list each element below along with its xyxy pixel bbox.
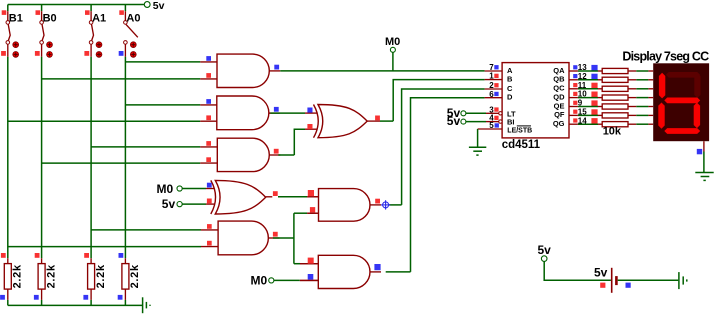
resistor 10k (QE segment): [602, 104, 628, 109]
display segment a (off): [666, 72, 700, 78]
cd4511 pin 14 (QG): [553, 116, 598, 128]
wire node P2a to U5 input 2: [294, 207, 319, 213]
wire resistor to display segment QA: [628, 70, 653, 72]
AND gate U8: [300, 255, 381, 288]
resistor 10k (QA segment): [602, 68, 628, 73]
wire pulldown rail: [8, 304, 143, 306]
svg-text:B1: B1: [9, 13, 23, 25]
wire QE to resistor: [578, 106, 602, 108]
IC U9 cd4511 body: [502, 63, 569, 138]
display panel: [653, 63, 709, 141]
terminal M0 (at U7): [157, 182, 183, 196]
cd4511 pin 7 (A): [485, 63, 513, 75]
display segment g (on): [664, 98, 700, 104]
wire U1 output to cd4511 pin A (node P0): [280, 70, 484, 72]
wire display common to ground: [697, 141, 704, 172]
wire U7 output to U5 input 1: [278, 190, 319, 197]
wire resistor to display segment QE: [628, 106, 653, 108]
wire A1 to U3 input A: [91, 146, 200, 148]
ground (battery): [679, 272, 687, 289]
svg-text:5v: 5v: [447, 114, 461, 128]
cd4511 pin 4 (BI) with 5v terminal: [447, 114, 515, 129]
svg-text:B0: B0: [43, 13, 57, 25]
wire M0 to U8 input 2: [274, 274, 318, 280]
svg-text:QE: QE: [554, 101, 565, 110]
wire QG to resistor: [578, 123, 602, 125]
battery BT1 5v: [594, 265, 631, 293]
svg-text:5v: 5v: [538, 243, 552, 257]
AND gate U3 (A1.B0): [200, 138, 280, 171]
AND gate U6 (A1.B1): [201, 221, 279, 255]
resistor 10k (QF segment): [602, 113, 628, 118]
wire 5v top rail: [8, 4, 145, 6]
cd4511 pin 10 (QD): [553, 90, 597, 102]
switch A1 (SPDT to 5v): [84, 5, 106, 58]
AND gate U1 (A0.B0): [200, 54, 280, 87]
wire B0 to U1 input B: [42, 78, 201, 80]
display segment c (on): [694, 103, 700, 129]
svg-text:QA: QA: [553, 66, 565, 75]
wire QA to resistor: [578, 70, 602, 72]
resistor R4 2.2k: [118, 253, 142, 305]
svg-text:A1: A1: [92, 13, 106, 25]
wire QC to resistor: [578, 88, 602, 90]
wire A1 column: [90, 57, 92, 258]
ground (display): [695, 173, 713, 181]
svg-text:2.2k: 2.2k: [45, 264, 57, 288]
svg-text:QB: QB: [553, 75, 565, 84]
svg-text:QG: QG: [553, 119, 565, 128]
resistor 10k (QD segment): [602, 95, 628, 100]
wire resistor to display segment QB: [628, 79, 653, 81]
resistor R3 2.2k: [83, 253, 107, 305]
svg-text:M0: M0: [157, 182, 174, 196]
svg-text:QC: QC: [553, 84, 565, 93]
terminal M0 (bottom): [251, 273, 274, 287]
ground (below cd4511): [469, 147, 486, 155]
svg-text:5v: 5v: [594, 265, 608, 279]
wire B1 to U5 input B: [8, 246, 201, 248]
svg-text:BI: BI: [507, 118, 515, 127]
wire U4 output to cd4511 pin B: [380, 80, 485, 122]
wire M0 to node P0: [392, 52, 394, 71]
switch A0 (SPDT to 5v): [119, 5, 141, 58]
wire U8 output to cd4511 pin D: [374, 98, 484, 272]
wire A1 to U5 input A: [91, 229, 201, 231]
svg-text:2.2k: 2.2k: [12, 264, 24, 288]
wire node P2a to U8 input 1: [294, 258, 318, 264]
wire resistor to display segment QF: [628, 114, 653, 116]
resistor R1 2.2k: [0, 253, 24, 305]
wire U5 output to cd4511 pin C: [389, 89, 485, 205]
ground (pulldown rail): [143, 297, 150, 313]
wire A0 column: [124, 57, 126, 258]
cd4511 pin 12 (QB): [553, 72, 597, 84]
power terminal 5v (top): [144, 0, 164, 12]
wire resistor to display segment QG: [628, 123, 653, 125]
XOR gate U4 (P1): [314, 105, 381, 138]
svg-text:cd4511: cd4511: [502, 139, 541, 151]
wire A0 to U1 input A: [125, 61, 200, 63]
resistor 10k (QB segment): [602, 77, 628, 82]
svg-text:5v: 5v: [153, 0, 165, 12]
label Display 7seg CC: [622, 49, 709, 63]
svg-text:QF: QF: [554, 110, 565, 119]
wire QF to resistor: [578, 114, 602, 116]
wire 5v to U7 input 2: [182, 199, 214, 205]
switch B1 (SPDT to 5v): [1, 5, 23, 58]
cd4511 pin 9 (QE): [554, 99, 598, 111]
terminal 5v (bottom): [538, 243, 552, 261]
display segment f (on): [659, 73, 665, 99]
cd4511 pin 5 (LE/STB) wire to ground: [478, 121, 533, 147]
wire B1 to U2 input B: [8, 120, 201, 122]
cd4511 pin 1 (B): [485, 72, 513, 84]
wire resistor to display segment QD: [628, 97, 653, 99]
svg-text:1: 1: [489, 72, 494, 81]
wire U2 output to U4 input 1: [269, 108, 317, 114]
svg-text:5: 5: [489, 121, 494, 130]
cd4511 pin 3 (LT) with 5v terminal: [447, 105, 516, 120]
resistor R2 2.2k: [34, 253, 58, 305]
terminal M0 (top): [385, 36, 400, 52]
wire B0 column: [41, 57, 43, 258]
wire resistor to display segment QC: [628, 88, 653, 90]
cd4511 pin 2 (C): [485, 81, 513, 93]
wire QB to resistor: [578, 79, 602, 81]
svg-text:C: C: [507, 84, 513, 93]
svg-text:M0: M0: [385, 36, 400, 48]
svg-text:LE/STB: LE/STB: [507, 127, 532, 134]
svg-text:Display 7seg CC: Display 7seg CC: [622, 49, 709, 63]
svg-text:A0: A0: [126, 13, 140, 25]
svg-text:QD: QD: [553, 92, 565, 101]
svg-text:6: 6: [489, 90, 494, 99]
svg-text:2: 2: [489, 81, 494, 90]
cd4511 pin 15 (QF): [554, 108, 598, 120]
display segment e (on): [658, 103, 664, 129]
cd4511 pin 13 (QA): [553, 63, 597, 75]
XOR gate U7: [211, 180, 278, 214]
cd4511 pin 6 (D): [485, 90, 513, 102]
cd4511 pin 11 (QC): [553, 81, 597, 93]
wire B1 column: [7, 57, 9, 258]
switch B0 (SPDT to 5v): [35, 5, 57, 58]
resistor 10k (QG segment): [602, 122, 628, 127]
svg-text:D: D: [507, 93, 513, 102]
AND gate U5: [308, 189, 381, 222]
svg-text:10k: 10k: [603, 126, 622, 138]
AND gate U2 (A0.B1): [200, 96, 279, 130]
display segment d (on): [664, 128, 700, 134]
svg-text:5v: 5v: [162, 197, 176, 211]
svg-text:2.2k: 2.2k: [129, 264, 141, 288]
wire U6 output to U5/U8 (node P2a): [273, 213, 294, 264]
wire A0 to U2 input A: [125, 104, 200, 106]
wire M0 to U7 input 1: [182, 183, 214, 189]
wire U3 output to U4 input 2: [278, 124, 317, 155]
wire B0 to U3 input B: [42, 162, 201, 164]
svg-text:2.2k: 2.2k: [95, 264, 107, 288]
svg-text:M0: M0: [251, 273, 268, 287]
label 10k: [603, 126, 622, 138]
svg-text:B: B: [507, 75, 513, 84]
wire battery to ground: [618, 279, 679, 281]
terminal 5v (at U7): [162, 197, 182, 211]
display segment b (off): [694, 73, 700, 98]
wire 5v terminal to battery: [544, 261, 611, 280]
voltage probe on U5 output: [381, 200, 390, 209]
resistor 10k (QC segment): [602, 86, 628, 91]
wire QD to resistor: [578, 97, 602, 99]
label cd4511: [502, 139, 541, 151]
